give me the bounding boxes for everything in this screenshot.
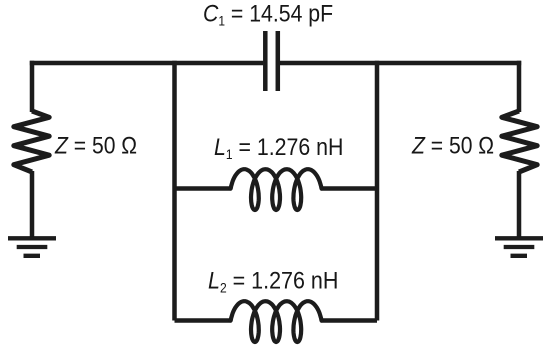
wire right branch bottom (resistor to ground)	[517, 171, 522, 238]
wire left branch top (corner to resistor)	[30, 61, 35, 112]
resistor Z left zigzag	[14, 111, 49, 172]
wire L1 left lead	[175, 186, 232, 191]
wire L2 left lead	[175, 318, 232, 323]
wire right rail (shared node)	[375, 61, 380, 321]
svg-text:C1 = 14.54 pF: C1 = 14.54 pF	[203, 0, 333, 28]
wire left branch bottom (resistor to ground)	[30, 171, 35, 238]
inductor L1 coil	[231, 169, 322, 210]
wire L1 right lead	[321, 186, 378, 191]
wire top-right segment (C1 right plate to top-right corner)	[280, 61, 521, 66]
svg-text:Z = 50 Ω: Z = 50 Ω	[54, 132, 137, 159]
svg-text:L2 = 1.276 nH: L2 = 1.276 nH	[208, 266, 338, 295]
capacitor C1 left plate	[263, 31, 268, 91]
wire left rail (shared node)	[172, 61, 177, 321]
wire top-left segment (top node to C1 left plate)	[30, 61, 263, 66]
ground right	[495, 238, 543, 256]
resistor Z right zigzag	[502, 111, 537, 172]
wire L2 right lead	[321, 318, 378, 323]
svg-text:Z = 50 Ω: Z = 50 Ω	[411, 132, 494, 159]
wire right branch top (corner to resistor)	[517, 61, 522, 112]
ground left	[8, 238, 56, 256]
inductor L2 coil	[231, 301, 322, 342]
svg-text:L1 = 1.276 nH: L1 = 1.276 nH	[214, 133, 343, 162]
capacitor C1 right plate	[276, 31, 281, 91]
